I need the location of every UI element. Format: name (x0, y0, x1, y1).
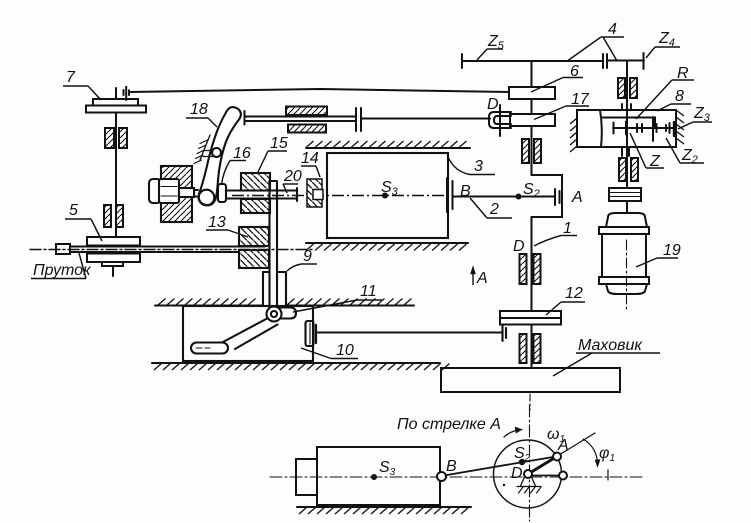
svg-text:D: D (513, 238, 525, 255)
svg-text:Z: Z (649, 153, 661, 170)
svg-text:В: В (460, 183, 471, 200)
svg-text:14: 14 (301, 150, 319, 167)
svg-text:11: 11 (360, 283, 377, 300)
svg-text:По стрелке А: По стрелке А (397, 416, 501, 433)
svg-text:20: 20 (283, 168, 302, 185)
svg-text:4: 4 (608, 21, 617, 38)
svg-text:Маховик: Маховик (578, 337, 643, 354)
svg-text:D: D (511, 465, 523, 482)
svg-text:2: 2 (489, 201, 499, 218)
svg-text:8: 8 (675, 88, 684, 105)
svg-text:А: А (571, 189, 583, 206)
svg-text:16: 16 (233, 145, 251, 162)
svg-text:А: А (476, 270, 488, 287)
svg-text:1: 1 (563, 220, 572, 237)
svg-text:10: 10 (336, 342, 354, 359)
svg-text:9: 9 (303, 248, 312, 265)
svg-text:13: 13 (208, 214, 226, 231)
svg-text:Пруток: Пруток (33, 262, 92, 279)
svg-text:D: D (487, 96, 499, 113)
svg-text:6: 6 (570, 63, 579, 80)
svg-text:R: R (677, 65, 689, 82)
svg-text:В: В (446, 458, 457, 475)
svg-text:3: 3 (474, 158, 483, 175)
svg-text:15: 15 (270, 135, 288, 152)
svg-text:7: 7 (66, 69, 76, 86)
svg-text:19: 19 (663, 242, 681, 259)
svg-text:12: 12 (565, 285, 583, 302)
svg-text:5: 5 (69, 202, 78, 219)
svg-text:17: 17 (571, 91, 590, 108)
svg-text:18: 18 (190, 101, 208, 118)
